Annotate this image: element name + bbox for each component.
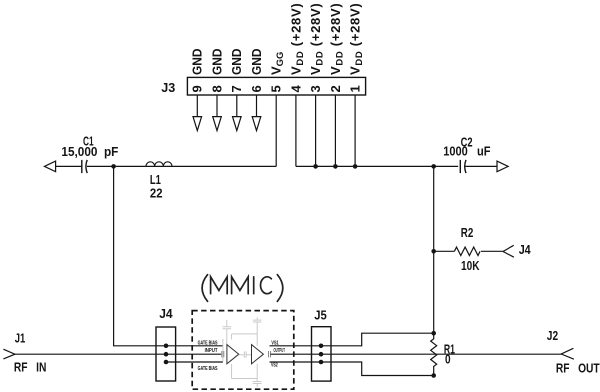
svg-text:GND: GND: [229, 49, 244, 76]
wire arrow to C1: [56, 165, 82, 167]
pin 8 number: [209, 85, 224, 92]
pin 3 number: [308, 85, 323, 92]
ground pin 9 stub and arrow: [193, 95, 202, 131]
wire MMIC VS2 to R1 bottom (stair): [270, 362, 434, 376]
svg-text:J3: J3: [161, 80, 175, 95]
J1 reference label: [15, 331, 26, 346]
connector J3 body: [187, 77, 365, 95]
MMIC dashed outline: [192, 311, 294, 390]
MMIC pad label VS2: [271, 363, 278, 369]
svg-text:0: 0: [445, 352, 451, 367]
wire pin 1 VDD drop: [354, 95, 356, 166]
ground pin 6 stub and arrow: [252, 95, 261, 131]
svg-text:4: 4: [288, 85, 303, 93]
wire pin 2 VDD drop: [334, 95, 336, 166]
L1 value label 22: [150, 185, 163, 200]
R1 reference label: [444, 342, 455, 357]
wire J4 top to MMIC gate bias: [166, 345, 223, 347]
pin 7 number: [229, 85, 244, 92]
wire C2 to terminal arrow: [465, 165, 497, 167]
MMIC interstage cap (gray): [239, 351, 252, 357]
MMIC title label: [202, 275, 283, 302]
connector J5 body: [312, 327, 332, 381]
J4 tap reference label: [519, 242, 532, 257]
MMIC amplifier stage 1 triangle: [227, 345, 239, 364]
net label GND pin 6: [249, 49, 264, 76]
net label GND pin 8: [209, 49, 224, 76]
wire VDD rail: [296, 165, 460, 167]
svg-text:J1: J1: [15, 331, 26, 346]
MMIC internal top rail (gray): [232, 334, 258, 340]
svg-text:GATE BIAS: GATE BIAS: [198, 340, 218, 346]
junction R1 bottom: [431, 373, 436, 378]
svg-text:6: 6: [249, 85, 264, 92]
junction pin 3 on VDD rail: [313, 164, 318, 169]
terminal arrow VGG left: [44, 161, 55, 172]
svg-text:R2: R2: [461, 225, 474, 240]
connector J4 body: [156, 327, 176, 381]
inductor L1: [146, 162, 172, 167]
MMIC internal bottom rail (gray): [232, 364, 262, 387]
J2 reference label: [547, 328, 558, 343]
R1 value label 0: [445, 352, 451, 367]
wire pin 5 VGG drop: [275, 95, 277, 166]
R2 reference label: [461, 225, 474, 240]
J1 net label RF IN: [14, 360, 47, 375]
wire pin 4 VDD drop: [295, 95, 297, 166]
wire R2 to J4 tap: [481, 250, 503, 252]
wire J4 bottom to MMIC gate bias 2: [166, 361, 223, 363]
svg-text:GND: GND: [209, 49, 224, 76]
MMIC amplifier stage 2 triangle: [252, 345, 264, 364]
C2 value label 1000 uF: [443, 144, 490, 159]
pin 4 number: [288, 85, 303, 93]
svg-text:GATE BIAS: GATE BIAS: [198, 366, 218, 372]
wire pin 3 VDD drop: [315, 95, 317, 166]
svg-text:9: 9: [190, 85, 205, 92]
MMIC internal bias column left (gray): [223, 320, 232, 344]
MMIC internal bias column right (gray): [253, 317, 262, 345]
wire MMIC VS1 to R1 top (stair): [270, 333, 434, 346]
connector J2 chevron RF output: [561, 348, 574, 359]
net label GND pin 7: [229, 49, 244, 76]
C1 reference label: [83, 133, 94, 148]
junction pin 1 on VDD rail: [353, 164, 358, 169]
J4 pin junction top: [164, 344, 169, 349]
svg-text:OUTPUT: OUTPUT: [274, 348, 286, 354]
wire C1 to VGG pin 5: [87, 165, 276, 167]
connector J1 chevron RF input: [3, 349, 15, 359]
connector J4 chevron (gate bias tap): [503, 245, 514, 257]
connector J3 reference label: [161, 80, 175, 95]
net label VDD (+28V) pin 1: [348, 3, 366, 75]
wire junction to R2: [434, 250, 455, 252]
MMIC pad label GATE BIAS bottom: [198, 366, 218, 372]
svg-text:INPUT: INPUT: [205, 348, 219, 354]
junction R1 top: [431, 331, 436, 336]
pin 5 number: [269, 85, 284, 92]
junction VDD rail to R2/R1 branch: [431, 164, 436, 169]
J4 pin junction bottom: [164, 360, 169, 365]
J2 net label RF OUT: [556, 360, 600, 375]
svg-text:8: 8: [209, 85, 224, 92]
svg-text:1000 uF: 1000 uF: [443, 144, 490, 159]
svg-text:GND: GND: [249, 49, 264, 76]
pin 1 number: [348, 85, 363, 92]
R2 value label 10K: [461, 258, 480, 273]
MMIC internal left bias drop (gray): [222, 339, 224, 362]
capacitor C2: [458, 159, 467, 174]
svg-text:J2: J2: [547, 328, 558, 343]
MMIC input coupling cap: [222, 351, 224, 357]
svg-text:J4: J4: [159, 306, 173, 321]
ground pin 8 stub and arrow: [213, 95, 222, 131]
svg-text:3: 3: [308, 85, 323, 92]
wire J4 middle to MMIC input: [166, 353, 221, 355]
net label VDD (+28V) pin 3: [308, 3, 326, 75]
svg-text:J4: J4: [519, 242, 532, 257]
L1 reference label: [150, 172, 161, 187]
svg-text:VS2: VS2: [271, 363, 278, 369]
wire VGG drop to lower gate bias: [114, 166, 166, 345]
svg-text:10K: 10K: [461, 258, 480, 273]
net label VGG pin 5: [269, 52, 287, 75]
wire VDD branch down to R2 and R1: [433, 166, 435, 333]
svg-text:5: 5: [269, 85, 284, 92]
svg-text:7: 7: [229, 85, 244, 92]
C1 value label 15,000 pF: [61, 144, 118, 159]
MMIC pad label INPUT: [205, 348, 219, 354]
C2 reference label: [461, 134, 473, 149]
net label GND pin 9: [190, 49, 205, 76]
J5 pin junction bottom: [319, 360, 324, 365]
J5 pin junction middle: [319, 352, 324, 357]
pin 2 number: [328, 85, 343, 92]
svg-text:GND: GND: [190, 49, 205, 76]
net label VDD (+28V) pin 4: [288, 3, 306, 75]
resistor R2: [454, 247, 480, 255]
svg-text:15,000 pF: 15,000 pF: [61, 144, 118, 159]
junction R2 tap: [431, 249, 436, 254]
wire RF input to J4: [15, 353, 166, 355]
MMIC pad label GATE BIAS top: [198, 340, 218, 346]
svg-text:RF IN: RF IN: [14, 360, 47, 375]
J4 reference label: [159, 306, 173, 321]
J5 pin junction top: [319, 344, 324, 349]
J5 reference label: [314, 307, 327, 322]
pin 9 number: [190, 85, 205, 92]
svg-text:J5: J5: [314, 307, 327, 322]
wire MMIC output to J2: [271, 353, 562, 355]
svg-text:22: 22: [150, 185, 163, 200]
ground pin 7 stub and arrow: [233, 95, 242, 131]
J4 pin junction middle: [164, 352, 169, 357]
junction pin 2 on VDD rail: [333, 164, 338, 169]
net label VDD (+28V) pin 2: [328, 3, 346, 75]
pin 6 number: [249, 85, 264, 92]
MMIC pad label OUTPUT: [274, 348, 286, 354]
junction node at C1 / gate bias tap: [111, 164, 116, 169]
MMIC output coupling cap: [269, 351, 271, 357]
capacitor C1: [82, 160, 87, 173]
resistor R1: [431, 333, 437, 375]
svg-text:2: 2: [328, 85, 343, 92]
svg-text:1: 1: [348, 85, 363, 92]
MMIC pad label VS1: [271, 340, 278, 346]
terminal arrow VDD right: [497, 161, 508, 172]
svg-text:RF OUT: RF OUT: [556, 360, 600, 375]
